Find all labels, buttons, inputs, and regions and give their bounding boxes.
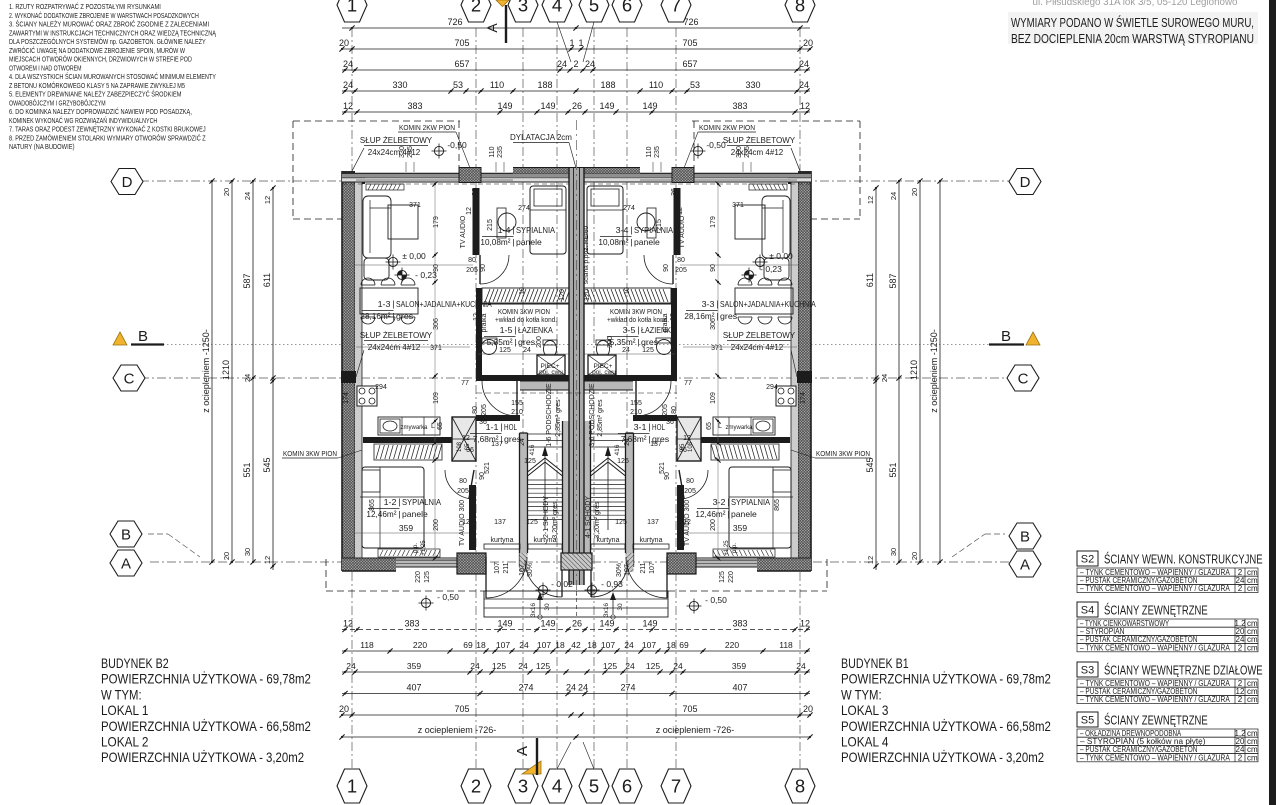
bed top bedroom 1-4	[530, 186, 566, 254]
svg-text:125: 125	[642, 347, 654, 354]
svg-text:220: 220	[728, 571, 735, 583]
svg-text:2-1 SCHODY: 2-1 SCHODY	[543, 496, 550, 538]
svg-text:1: 1	[347, 0, 357, 16]
svg-text:5: 5	[589, 776, 599, 797]
svg-text:p.p.: p.p.	[732, 543, 738, 553]
svg-text:gres: gres	[396, 311, 413, 321]
svg-text:24x24cm 4#12: 24x24cm 4#12	[368, 343, 421, 352]
svg-text:± 0,00: ± 0,00	[769, 251, 793, 261]
svg-text:235: 235	[497, 146, 504, 158]
svg-text:8: 8	[795, 776, 805, 797]
svg-text:1. RZUTY ROZPATRYWAĆ Z POZOSTA: 1. RZUTY ROZPATRYWAĆ Z POZOSTAŁYMI RYSUN…	[9, 2, 161, 11]
svg-text:z ociepleniem -726-: z ociepleniem -726-	[418, 725, 497, 735]
svg-text:210: 210	[630, 409, 642, 416]
svg-text:306: 306	[433, 318, 440, 330]
svg-text:521: 521	[659, 462, 666, 474]
svg-text:80: 80	[468, 257, 476, 264]
kitchen counter + sink	[713, 417, 775, 435]
stair treads lower flight	[591, 479, 626, 481]
svg-text:188: 188	[600, 80, 615, 90]
svg-text:3-6 PODSCHODZIE: 3-6 PODSCHODZIE	[589, 383, 596, 447]
svg-text:110: 110	[646, 146, 653, 157]
piec box	[588, 355, 616, 375]
svg-text:6. DO KOMINKA NALEŻY DOPROWADZ: 6. DO KOMINKA NALEŻY DOPROWADZIĆ NAWIEW …	[9, 107, 192, 116]
svg-text:90: 90	[480, 264, 487, 272]
svg-text:SYPIALNIA: SYPIALNIA	[402, 497, 441, 507]
svg-text:865: 865	[369, 499, 376, 511]
svg-text:SŁUP ŻELBETOWY: SŁUP ŻELBETOWY	[723, 331, 796, 340]
svg-text:POWIERZCHNIA UŻYTKOWA - 66,58m: POWIERZCHNIA UŻYTKOWA - 66,58m2	[101, 717, 311, 734]
tv-audio wall (bottom bedroom)	[469, 485, 476, 550]
svg-text:69: 69	[463, 640, 473, 650]
svg-text:330: 330	[399, 146, 406, 158]
elevation ±0.00 left salon	[388, 257, 397, 266]
svg-text:24: 24	[796, 661, 806, 671]
grid axes	[351, 28, 353, 770]
svg-text:24: 24	[346, 661, 356, 671]
door arc bedroom 1-4	[644, 255, 673, 284]
svg-text:4: 4	[552, 0, 562, 16]
svg-text:C: C	[1018, 370, 1029, 387]
svg-text:1-2: 1-2	[384, 497, 397, 507]
svg-text:1: 1	[347, 776, 357, 797]
svg-text:179: 179	[433, 216, 440, 228]
section marker A top	[496, 0, 509, 7]
svg-text:24: 24	[557, 59, 567, 69]
right dimension columns	[875, 188, 877, 570]
svg-text:TV AUDIO: TV AUDIO	[679, 215, 686, 248]
section marker B left	[113, 332, 127, 345]
wc	[544, 341, 557, 358]
svg-text:77: 77	[684, 380, 692, 387]
svg-text:S2: S2	[1081, 554, 1094, 566]
svg-text:211: 211	[640, 562, 647, 573]
svg-text:77: 77	[461, 380, 469, 387]
bed bottom bedroom	[362, 467, 424, 548]
svg-text:24: 24	[625, 661, 635, 671]
svg-text:20: 20	[910, 188, 919, 196]
svg-text:274: 274	[518, 683, 533, 693]
svg-text:657: 657	[682, 59, 697, 69]
svg-text:65: 65	[680, 443, 686, 450]
svg-text:200: 200	[536, 336, 543, 348]
svg-text:26: 26	[572, 101, 582, 111]
svg-text:6: 6	[622, 0, 632, 16]
entrance door arcs	[626, 557, 667, 598]
elevation -0.23 left salon	[397, 270, 406, 279]
svg-text:8: 8	[795, 0, 805, 16]
svg-text:POWIERZCHNIA UŻYTKOWA - 3,20m2: POWIERZCHNIA UŻYTKOWA - 3,20m2	[841, 748, 1044, 765]
stairwell left wall	[626, 433, 634, 567]
svg-text:12,46m²: 12,46m²	[695, 509, 725, 519]
top wall hatched piers	[459, 168, 481, 183]
svg-text:18: 18	[555, 640, 565, 650]
svg-text:12: 12	[473, 313, 480, 321]
svg-text:107: 107	[624, 564, 631, 576]
svg-text:3x16: 3x16	[603, 603, 610, 617]
interior dashed line under top wall	[582, 183, 811, 185]
svg-text:OWADOBÓJCZYM I GRZYBOBÓJCZYM: OWADOBÓJCZYM I GRZYBOBÓJCZYM	[9, 98, 106, 107]
interior thin dim lines	[355, 264, 473, 266]
svg-text:ul. Piłsudskiego 31A lok 3/5,: ul. Piłsudskiego 31A lok 3/5, 05-120 Leg…	[1033, 0, 1238, 8]
elevation marker -0.50 top-right	[693, 146, 702, 155]
hexagon 4/5 leader diagonals	[557, 22, 571, 62]
svg-text:10: 10	[519, 287, 526, 295]
svg-text:ŚCIANY ZEWNĘTRZNE: ŚCIANY ZEWNĘTRZNE	[1104, 713, 1208, 728]
svg-text:LOKAL 2: LOKAL 2	[101, 734, 149, 750]
svg-text:125: 125	[615, 519, 627, 526]
column in left wall	[797, 371, 812, 383]
corner column slup	[355, 174, 365, 184]
svg-text:p.p.: p.p.	[413, 543, 419, 553]
svg-text:149: 149	[497, 619, 512, 629]
svg-text:42: 42	[571, 640, 581, 650]
svg-text:- 0,02: - 0,02	[551, 579, 573, 589]
svg-text:294: 294	[375, 384, 387, 391]
svg-text:235: 235	[654, 146, 661, 158]
svg-text:3,20m² gres: 3,20m² gres	[594, 501, 601, 539]
svg-text:1-3: 1-3	[378, 299, 391, 309]
wall above hol	[476, 415, 520, 421]
svg-text:12: 12	[800, 101, 810, 111]
svg-text:125: 125	[603, 661, 617, 671]
svg-text:L: L	[431, 423, 435, 430]
svg-text:211: 211	[503, 562, 510, 573]
svg-text:205: 205	[675, 267, 687, 274]
svg-text:kurtyna: kurtyna	[640, 537, 663, 544]
svg-text:359: 359	[732, 661, 746, 671]
svg-text:118: 118	[360, 640, 374, 650]
svg-text:30: 30	[243, 548, 252, 556]
svg-text:24: 24	[343, 59, 353, 69]
svg-text:+1,25: +1,25	[724, 540, 730, 556]
svg-text:18: 18	[587, 640, 597, 650]
svg-text:cm: cm	[1247, 643, 1258, 652]
svg-text:TV AUDIO: TV AUDIO	[460, 215, 467, 248]
top dimension rows	[342, 27, 810, 29]
svg-text:53: 53	[453, 80, 463, 90]
svg-text:pralka: pralka	[662, 313, 669, 332]
svg-text:18: 18	[476, 640, 486, 650]
svg-text:551: 551	[888, 462, 898, 477]
door arc bedroom 1-4	[480, 255, 509, 284]
svg-text:125: 125	[492, 661, 506, 671]
svg-text:4: 4	[552, 776, 562, 797]
svg-text:24: 24	[799, 80, 809, 90]
svg-text:149: 149	[540, 619, 555, 629]
exterior left wall	[342, 171, 355, 571]
svg-text:90: 90	[710, 264, 717, 272]
furniture: sofa	[363, 196, 391, 258]
bathroom walls	[671, 288, 677, 381]
svg-text:20: 20	[339, 704, 349, 714]
svg-text:383: 383	[407, 101, 422, 111]
svg-text:S5: S5	[1081, 715, 1094, 727]
svg-text:24: 24	[799, 59, 809, 69]
svg-text:DLA POSZCZEGÓLNYCH SYSTEMÓW np: DLA POSZCZEGÓLNYCH SYSTEMÓW np. GAZOBETO…	[9, 37, 206, 46]
svg-text:ZAWARTYMI W INSTRUKCJACH TECHN: ZAWARTYMI W INSTRUKCJACH TECHNICZNYCH OR…	[9, 28, 217, 37]
legend wall-type tables	[1077, 551, 1098, 566]
svg-text:20: 20	[222, 188, 231, 196]
interior dim line vertical x435	[717, 184, 719, 558]
svg-text:KOMIN 3KW PION: KOMIN 3KW PION	[816, 451, 870, 458]
svg-text:657: 657	[454, 59, 469, 69]
stair break + arrow	[528, 458, 546, 472]
svg-text:125: 125	[526, 519, 538, 526]
svg-text:D: D	[122, 174, 133, 191]
svg-text:4. DLA WSZYSTKICH ŚCIAN MUROWA: 4. DLA WSZYSTKICH ŚCIAN MUROWANYCH STOSO…	[9, 72, 216, 81]
svg-text:KOMIN 3KW PION: KOMIN 3KW PION	[498, 309, 550, 316]
radiator top wall salon	[749, 184, 787, 190]
svg-text:36: 36	[671, 188, 678, 196]
svg-text:2,85m² gres: 2,85m² gres	[555, 399, 562, 437]
bottom-entry pier	[457, 553, 486, 574]
svg-text:200: 200	[710, 519, 717, 531]
svg-text:A: A	[121, 555, 131, 572]
svg-text:521: 521	[484, 462, 491, 474]
armchair top bedroom	[498, 213, 516, 231]
washbasin	[482, 340, 497, 355]
tv-audio wall (bottom bedroom)	[677, 485, 684, 550]
entrance recess side line	[485, 574, 487, 591]
svg-text:POWIERZCHNIA UŻYTKOWA - 66,58m: POWIERZCHNIA UŻYTKOWA - 66,58m2	[841, 717, 1051, 734]
svg-text:ŚCIANY ZEWNĘTRZNE: ŚCIANY ZEWNĘTRZNE	[1104, 603, 1208, 618]
svg-text:137: 137	[494, 519, 506, 526]
svg-text:LOKAL 1: LOKAL 1	[101, 702, 149, 718]
svg-text:A: A	[514, 746, 531, 756]
kurtyna strips	[484, 544, 520, 549]
svg-text:110: 110	[490, 80, 504, 90]
svg-text:12: 12	[263, 556, 272, 564]
svg-text:120: 120	[584, 289, 591, 301]
entrance recess side line	[666, 574, 668, 591]
svg-text:274: 274	[518, 205, 530, 212]
svg-text:HOL: HOL	[652, 422, 665, 432]
svg-text:107: 107	[537, 640, 551, 650]
svg-text:125: 125	[499, 347, 511, 354]
svg-text:z ociepleniem -1250-: z ociepleniem -1250-	[201, 329, 211, 413]
svg-text:24: 24	[243, 374, 252, 382]
svg-text:7. TARAS ORAZ PODEST ZEWNĘTRZN: 7. TARAS ORAZ PODEST ZEWNĘTRZNY WYKONAĆ …	[9, 125, 206, 134]
svg-text:110: 110	[489, 146, 496, 157]
svg-text:SALON+JADALNIA+KUCHNIA: SALON+JADALNIA+KUCHNIA	[396, 299, 492, 309]
svg-text:2: 2	[471, 0, 481, 16]
svg-text:panele: panele	[731, 509, 757, 519]
svg-text:383: 383	[732, 619, 747, 629]
svg-text:B: B	[1001, 328, 1011, 345]
svg-text:3-1: 3-1	[634, 422, 647, 432]
svg-text:SŁUP ŻELBETOWY: SŁUP ŻELBETOWY	[360, 136, 433, 145]
inner lining left wall	[355, 182, 362, 558]
svg-text:220: 220	[415, 571, 422, 583]
svg-text:125: 125	[719, 571, 726, 583]
svg-text:80: 80	[472, 406, 479, 414]
svg-text:+1,25: +1,25	[421, 540, 427, 556]
svg-text:215: 215	[487, 219, 494, 231]
svg-text:30: 30	[617, 603, 624, 611]
svg-text:– TYNK CEMENTOWO – WAPIENNY /: – TYNK CEMENTOWO – WAPIENNY / GLAZURA	[1080, 643, 1230, 652]
svg-text:LOKAL 3: LOKAL 3	[841, 702, 889, 718]
svg-text:KOMIN 2KW PION: KOMIN 2KW PION	[699, 125, 755, 132]
svg-text:107: 107	[519, 564, 526, 576]
svg-text:30: 30	[889, 548, 898, 556]
svg-text:371: 371	[409, 202, 421, 209]
svg-text:205: 205	[466, 267, 478, 274]
desk top bedroom	[497, 208, 506, 238]
entrance porch steps	[484, 591, 668, 617]
elevation ±0.00 right salon	[755, 257, 764, 266]
svg-text:1-4: 1-4	[498, 225, 511, 235]
svg-text:BEZ DOCIEPLENIA 20cm WARST: BEZ DOCIEPLENIA 20cm WARSTWĄ STYROPIANU	[1011, 31, 1254, 46]
svg-text:2: 2	[1238, 584, 1243, 593]
radiator / wardrobe zigzag below kitchen	[374, 444, 442, 460]
svg-text:7: 7	[671, 776, 681, 797]
stove	[357, 386, 377, 406]
svg-text:220: 220	[413, 640, 427, 650]
top wall left half	[577, 174, 811, 178]
svg-text:359: 359	[399, 523, 413, 533]
svg-text:+wkład do kotła kond.: +wkład do kotła kond.	[495, 317, 557, 324]
svg-text:107: 107	[494, 562, 501, 574]
svg-text:205: 205	[684, 488, 696, 495]
svg-text:cm: cm	[1247, 753, 1258, 762]
tv-audio wall (top bedroom)	[674, 188, 681, 255]
svg-text:ŚCIANY WEWNĘTRZNE DZIAŁOWE: ŚCIANY WEWNĘTRZNE DZIAŁOWE	[1104, 663, 1263, 678]
eave dashed outline bottom-right	[826, 559, 828, 591]
svg-text:30: 30	[544, 603, 551, 611]
svg-text:3-3: 3-3	[702, 299, 715, 309]
wc	[597, 341, 610, 358]
svg-text:12: 12	[462, 519, 470, 526]
svg-text:149: 149	[497, 101, 512, 111]
stairwell right wall (next to center)	[583, 421, 591, 553]
column in left wall	[341, 371, 356, 383]
wardrobe band bedroom 1-4	[482, 288, 571, 303]
svg-text:B: B	[138, 328, 148, 345]
svg-text:109: 109	[710, 392, 717, 404]
svg-text:611: 611	[262, 273, 272, 287]
svg-text:7: 7	[671, 0, 681, 16]
svg-text:416: 416	[529, 444, 536, 455]
svg-text:24: 24	[566, 683, 576, 693]
entrance door arcs	[486, 557, 527, 598]
elevation -0.50 bottom-left	[421, 598, 430, 607]
svg-text:107: 107	[601, 640, 615, 650]
svg-text:2: 2	[573, 59, 578, 69]
svg-text:poj. cwu: poj. cwu	[539, 369, 563, 376]
svg-text:3: 3	[518, 776, 528, 797]
radiator top wall salon	[366, 184, 404, 190]
svg-text:330: 330	[745, 80, 760, 90]
top wall hatched piers	[672, 168, 694, 183]
door bedroom 1-2	[679, 470, 708, 499]
svg-text:174: 174	[800, 392, 807, 404]
svg-text:125: 125	[646, 661, 660, 671]
svg-text:3: 3	[518, 0, 528, 16]
svg-text:4-1 SCHODY: 4-1 SCHODY	[585, 496, 592, 538]
roof eave dashed outline top-right	[692, 120, 860, 122]
svg-text:gres: gres	[641, 337, 658, 347]
door salon->hol	[636, 381, 671, 416]
svg-text:20: 20	[803, 38, 813, 48]
chimney block KOMIN 3KW	[452, 417, 476, 461]
svg-text:53: 53	[690, 80, 700, 90]
svg-text:149: 149	[642, 619, 657, 629]
bottom hexagon grid markers	[337, 769, 367, 803]
svg-text:24: 24	[880, 374, 889, 382]
bed bottom bedroom	[729, 467, 791, 548]
svg-text:- 0,23: - 0,23	[760, 264, 782, 274]
svg-text:24: 24	[519, 640, 529, 650]
svg-text:24: 24	[673, 661, 683, 671]
svg-text:gres: gres	[720, 311, 737, 321]
svg-text:24: 24	[889, 192, 898, 200]
svg-text:5,35m²: 5,35m²	[487, 337, 513, 347]
svg-text:ŁAZIENKA: ŁAZIENKA	[641, 325, 676, 335]
svg-text:200: 200	[433, 519, 440, 531]
svg-text:107: 107	[496, 640, 510, 650]
svg-text:24: 24	[243, 192, 252, 200]
svg-text:726: 726	[683, 17, 698, 27]
svg-text:A: A	[484, 23, 500, 33]
svg-text:24: 24	[523, 347, 531, 354]
corner column slup	[788, 174, 798, 184]
svg-text:SYPIALNIA: SYPIALNIA	[634, 225, 673, 235]
svg-text:24: 24	[343, 80, 353, 90]
svg-text:155: 155	[630, 400, 642, 407]
svg-text:panele: panele	[634, 237, 660, 247]
top wall window lines	[356, 179, 460, 181]
svg-text:20: 20	[910, 552, 919, 560]
svg-text:1210: 1210	[221, 360, 231, 380]
svg-text:1-1: 1-1	[486, 422, 499, 432]
svg-text:416: 416	[614, 444, 621, 455]
elevation -0.02 entrance left	[538, 585, 547, 594]
right letter markers	[1009, 169, 1041, 195]
furniture: sofa	[762, 196, 790, 258]
svg-text:587: 587	[242, 273, 252, 288]
svg-text:WYMIARY PODANO W ŚWIETLE SUROW: WYMIARY PODANO W ŚWIETLE SUROWEGO MURU,	[1011, 15, 1254, 30]
top wall left half	[342, 174, 576, 178]
roof eave dashed outline top-left	[293, 120, 460, 122]
svg-text:kurtyna: kurtyna	[597, 537, 620, 544]
svg-text:2,85m² gres: 2,85m² gres	[597, 399, 604, 437]
svg-text:2: 2	[471, 776, 481, 797]
section marker B right	[1026, 332, 1040, 345]
svg-text:149: 149	[642, 101, 657, 111]
tv-audio wall (top bedroom)	[473, 188, 480, 255]
svg-text:155: 155	[511, 400, 523, 407]
svg-text:ściana p.poż. REI60: ściana p.poż. REI60	[583, 226, 590, 285]
svg-text:S3: S3	[1081, 665, 1094, 677]
svg-text:LOKAL 4: LOKAL 4	[841, 734, 889, 750]
stove	[776, 386, 796, 406]
svg-text:2: 2	[1238, 643, 1243, 652]
svg-text:3-4: 3-4	[616, 225, 629, 235]
svg-text:SYPIALNIA: SYPIALNIA	[516, 225, 555, 235]
svg-text:705: 705	[682, 704, 697, 714]
svg-text:371: 371	[732, 202, 744, 209]
svg-text:S4: S4	[1081, 605, 1094, 617]
bottom wall	[342, 558, 396, 571]
svg-text:865: 865	[774, 499, 781, 511]
svg-text:KOMIN 2KW PION: KOMIN 2KW PION	[399, 125, 455, 132]
stair treads upper flight	[528, 433, 563, 435]
top hexagon grid markers	[337, 0, 367, 22]
svg-text:125: 125	[617, 458, 629, 465]
svg-text:65: 65	[465, 443, 471, 450]
svg-text:± 0,00: ± 0,00	[402, 251, 426, 261]
